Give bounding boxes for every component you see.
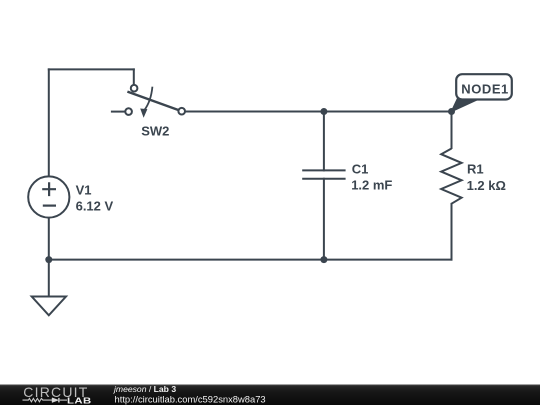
svg-text:jmeeson / Lab 3: jmeeson / Lab 3	[113, 384, 176, 394]
node NODE1 box	[456, 74, 512, 99]
capacitor C1	[302, 170, 345, 178]
junction dot at ground node	[45, 256, 52, 263]
wire C1 top lead	[323, 112, 325, 171]
node NODE1 dot	[448, 108, 455, 115]
svg-text:1.2 mF: 1.2 mF	[351, 178, 392, 193]
wire switch top lead	[133, 69, 135, 85]
svg-text:LAB: LAB	[67, 397, 92, 405]
wire main horizontal (switch to node)	[185, 111, 451, 113]
junction dot at C1 top	[320, 108, 327, 115]
wire V1 bottom lead to ground	[48, 218, 50, 297]
svg-text:http://circuitlab.com/c592snx8: http://circuitlab.com/c592snx8w8a73	[115, 393, 266, 404]
wire switch left stub	[112, 111, 125, 113]
svg-text:C1: C1	[352, 162, 369, 177]
switch SW2	[125, 85, 185, 118]
footer logo resistor squiggle	[23, 398, 68, 401]
wire R1 bottom lead	[451, 204, 453, 260]
svg-text:V1: V1	[76, 183, 92, 198]
svg-text:6.12 V: 6.12 V	[76, 199, 114, 214]
ground	[32, 297, 66, 316]
node NODE1 flag pointer	[452, 99, 480, 112]
resistor R1	[441, 149, 461, 204]
svg-text:NODE1: NODE1	[461, 82, 509, 97]
footer logo diode	[52, 398, 58, 402]
wire left vertical (V1 top to top-left corner)	[48, 69, 50, 176]
svg-text:SW2: SW2	[141, 124, 169, 139]
svg-text:1.2 kΩ: 1.2 kΩ	[467, 178, 506, 193]
voltage source V1	[28, 176, 69, 217]
wire top horizontal	[49, 68, 134, 70]
svg-text:R1: R1	[467, 162, 484, 177]
wire C1 bottom lead	[323, 179, 325, 260]
junction dot at C1 bottom	[320, 256, 327, 263]
wire bottom horizontal	[49, 259, 452, 261]
wire R1 top lead	[451, 112, 453, 149]
